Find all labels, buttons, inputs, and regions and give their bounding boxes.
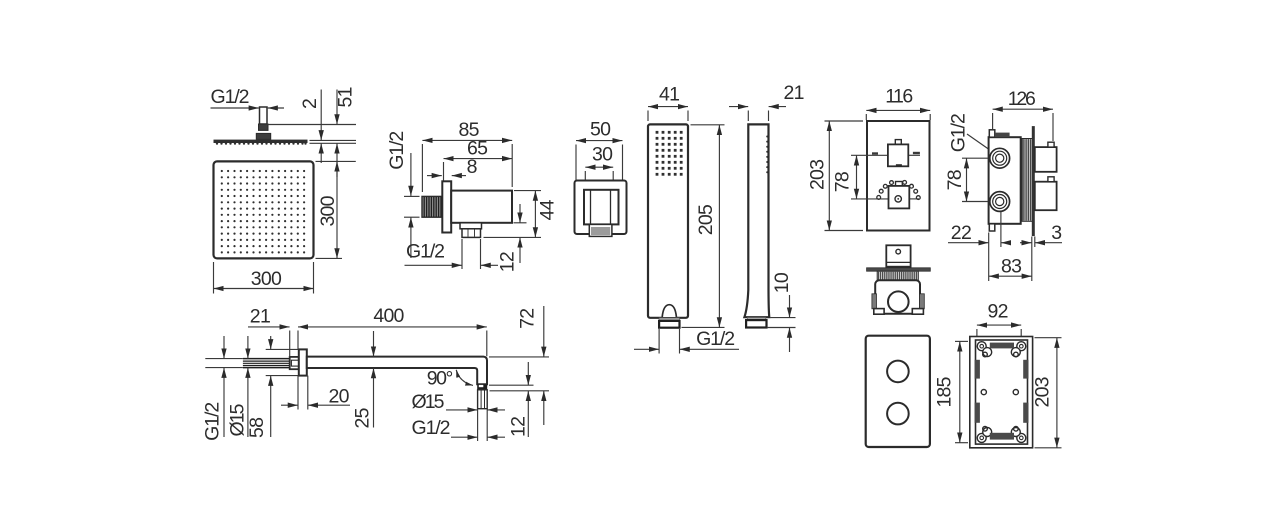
svg-text:126: 126: [1008, 88, 1036, 110]
mixer side: dimension 3: [1020, 222, 1062, 244]
arm: dimension 25 tube height: [351, 331, 373, 429]
rough-in box: screw holes: [981, 352, 1018, 431]
svg-text:8: 8: [467, 156, 478, 178]
mixer side: ribbed band: [1022, 139, 1033, 222]
rough-in box: side wall blocks: [975, 360, 1029, 423]
arm: dimension Ø15 outlet: [412, 391, 506, 441]
hand shower front: label G1/2: [634, 328, 739, 354]
arm: label G1/2 wall thread: [201, 336, 224, 441]
rough-in box: dimension 92: [977, 301, 1021, 339]
holder: dimension 30: [585, 144, 613, 191]
wall elbow: outlet collar: [460, 223, 482, 229]
mixer side: lower outlet block: [1035, 177, 1057, 210]
mixer section view: ribbed mounting collar: [877, 271, 918, 280]
arm: dimension 58 flange: [246, 336, 299, 438]
arm: wall nut: [290, 357, 299, 369]
mixer front: dimension 203: [807, 121, 863, 231]
svg-text:50: 50: [590, 119, 611, 141]
hand shower front: outlet cone: [662, 305, 676, 317]
arm: thread extension lines: [205, 358, 243, 360]
rough-in box: corner bosses: [977, 342, 1026, 443]
wall elbow: outlet thread: [462, 229, 481, 238]
svg-text:205: 205: [695, 204, 717, 235]
wall elbow: threaded inlet pipe: [422, 196, 442, 217]
holder: wall plate: [575, 181, 627, 235]
mixer side: label G1/2 with leader: [948, 113, 1013, 165]
svg-text:G1/2: G1/2: [386, 131, 408, 170]
arm: dimension 72: [489, 306, 549, 425]
dimension 51 head height: [335, 87, 357, 178]
rough-in box: top and bottom clamp bars: [990, 343, 1014, 349]
hand shower side: dimension 10: [767, 272, 796, 352]
svg-text:51: 51: [335, 87, 357, 108]
svg-text:G1/2: G1/2: [948, 113, 970, 152]
extension lines head side: [268, 124, 356, 126]
svg-text:20: 20: [329, 386, 350, 408]
mixer side: dimension 78: [944, 158, 988, 201]
mixer front: lower control (volume handle) with dot scale: [877, 181, 920, 209]
nozzle dot grid: [221, 170, 306, 254]
trim plate with two knobs: [866, 336, 930, 447]
svg-text:78: 78: [831, 171, 853, 192]
hand shower front: dimension 205: [682, 125, 725, 328]
svg-text:41: 41: [659, 84, 680, 106]
dimension 300 bottom: [214, 262, 314, 294]
wall elbow: dimension 85: [422, 119, 512, 192]
dimension 2 head plate thickness: [299, 90, 321, 164]
hand shower front: body: [648, 124, 688, 317]
rough-in box: dimension 203: [1032, 338, 1062, 448]
svg-text:G1/2: G1/2: [406, 241, 445, 263]
svg-text:400: 400: [373, 305, 404, 327]
shower head side view: connector pipe: [256, 107, 270, 139]
hand shower side: body: [744, 124, 769, 317]
hand shower front: connector nut: [659, 318, 679, 328]
mixer side: extension lines: [988, 233, 990, 282]
svg-text:25: 25: [351, 407, 373, 428]
wall elbow: dimension 8 flange: [427, 156, 477, 178]
svg-text:300: 300: [251, 268, 282, 290]
svg-text:12: 12: [497, 251, 519, 272]
arm: dimension Ø15 wall pipe: [226, 336, 248, 437]
svg-text:185: 185: [934, 376, 956, 407]
svg-text:21: 21: [784, 82, 805, 104]
wall elbow: body: [451, 191, 512, 223]
arm: outlet nut: [477, 384, 487, 390]
label G1/2 head connector: [211, 86, 285, 108]
arm: label G1/2 outlet: [412, 417, 506, 439]
arm: dimension 20 flange width: [281, 386, 350, 408]
wall elbow: label G1/2 inlet: [386, 131, 420, 258]
svg-text:10: 10: [771, 272, 793, 293]
svg-text:203: 203: [1032, 377, 1054, 408]
arm: dimension 400: [298, 305, 487, 327]
mixer front: dimension 78: [831, 155, 856, 199]
svg-text:203: 203: [807, 159, 829, 190]
svg-text:21: 21: [250, 306, 271, 328]
arm: 90 degree angle note: [427, 368, 473, 390]
svg-text:G1/2: G1/2: [211, 86, 250, 108]
rough-in box: dimension 185: [934, 341, 968, 442]
svg-text:12: 12: [508, 416, 530, 437]
mixer section view: valve body: [872, 280, 924, 314]
mixer front: dimension 116: [866, 86, 930, 121]
mixer side: face plate edge: [1032, 126, 1035, 236]
svg-text:300: 300: [317, 195, 339, 226]
mixer front: center lines: [851, 154, 888, 156]
arm: dimension 12 outlet nut: [489, 362, 534, 437]
rough-in box: outer housing: [970, 337, 1033, 448]
arm: dimension extension lines: [289, 331, 291, 357]
wall elbow: dimension 65: [444, 138, 513, 181]
mixer side: dimension 83: [989, 256, 1032, 278]
mixer side: dimension 126: [993, 88, 1053, 141]
svg-text:G1/2: G1/2: [201, 402, 223, 441]
svg-text:72: 72: [516, 308, 538, 329]
arm: wall flange: [299, 349, 307, 375]
mixer side: valve body: [989, 130, 1021, 231]
wall elbow: flange: [442, 181, 451, 232]
holder: clip body: [584, 190, 619, 225]
mixer front: upper control (temperature handle): [872, 140, 920, 167]
arm: wall thread lines: [243, 359, 290, 368]
mixer section view: face plate bar: [867, 268, 931, 271]
svg-text:3: 3: [1051, 222, 1062, 244]
hand shower front: spray face dots: [656, 131, 683, 176]
mixer side: lower inlet circles: [990, 192, 1010, 212]
mixer front: face plate: [867, 121, 930, 231]
svg-text:Ø15: Ø15: [412, 391, 445, 413]
svg-text:2: 2: [299, 98, 321, 109]
arm: dimension 21: [248, 306, 290, 328]
wall elbow: label G1/2 outlet: [405, 239, 499, 269]
mixer section view: handle stem: [886, 245, 910, 266]
arm: arm tube with 90 degree bend: [307, 357, 487, 385]
svg-text:30: 30: [592, 144, 613, 166]
hand shower side: dimension 21: [729, 82, 805, 121]
svg-text:78: 78: [944, 169, 966, 190]
wall elbow: dimension 44: [484, 191, 559, 238]
rough-in box: inner housing: [976, 340, 1028, 444]
holder: dimension 50: [576, 119, 623, 182]
holder: bottom tray: [589, 224, 612, 236]
svg-text:44: 44: [537, 199, 559, 220]
mixer side: dimension 22: [948, 222, 1010, 244]
svg-text:90°: 90°: [427, 368, 454, 390]
mixer side: upper outlet block: [1035, 142, 1057, 172]
arm: outlet thread tube: [478, 390, 488, 409]
svg-text:G1/2: G1/2: [412, 417, 451, 439]
hand shower front: dimension 41: [648, 84, 688, 122]
hand shower side: connector nut: [747, 318, 766, 321]
svg-text:G1/2: G1/2: [696, 328, 735, 350]
svg-text:22: 22: [951, 222, 972, 244]
svg-text:92: 92: [988, 301, 1009, 323]
shower head front view: square face: [214, 161, 314, 258]
hand shower side: spray bumps: [766, 136, 768, 174]
mixer side: upper inlet circles: [990, 148, 1010, 168]
shower head side view: head plate: [214, 140, 308, 145]
svg-text:83: 83: [1001, 256, 1022, 278]
dimension 300 right: [316, 161, 356, 258]
svg-text:116: 116: [885, 86, 913, 108]
svg-text:58: 58: [246, 417, 268, 438]
wall elbow: dimension 12: [497, 204, 527, 272]
